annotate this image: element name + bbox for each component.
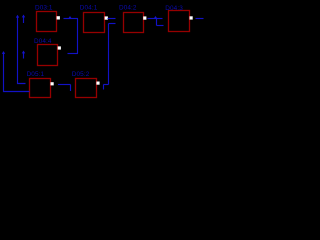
pin D04:1 right [105, 16, 108, 19]
wire from D04:1 pin [108, 18, 116, 20]
pin D05:1 right [51, 82, 54, 85]
svg-text:D05:1: D05:1 [27, 71, 45, 78]
wire down from D04:2 net [156, 19, 158, 26]
port wire short middle [23, 52, 25, 59]
component D03:1 [37, 12, 57, 32]
arrow port top short [22, 15, 25, 18]
wire down stub near D05:2 [103, 85, 105, 90]
wire from D04:2 pin [148, 18, 163, 20]
wire down from D04:1 net [108, 24, 110, 85]
pin D04:4 right [58, 46, 61, 49]
arrow port far left [2, 51, 5, 54]
svg-text:D04:3: D04:3 [165, 5, 183, 12]
svg-text:D04:4: D04:4 [34, 38, 52, 45]
wire stub below D04:1 pin [109, 23, 116, 25]
pin D03:1 right [57, 16, 60, 19]
wire from D03:1 pin [64, 18, 79, 20]
component D05:2 [76, 79, 97, 98]
port wire long left [18, 17, 26, 84]
pin D04:3 right [190, 16, 193, 19]
pin D04:2 right [143, 16, 146, 19]
svg-text:D03:1: D03:1 [35, 5, 53, 12]
wire down from D05:1 net [70, 85, 72, 92]
svg-text:D04:2: D04:2 [119, 5, 137, 12]
component D04:3 [169, 11, 190, 32]
arrow port middle short [22, 51, 25, 54]
arrow on D03:1 wire [68, 16, 72, 19]
wire down from D03:1 net [77, 19, 79, 54]
component D04:1 [84, 13, 105, 33]
arrow on D04:2 wire [154, 16, 158, 19]
component D05:1 [30, 79, 51, 98]
port wire far left [4, 53, 30, 92]
svg-text:D04:1: D04:1 [80, 5, 98, 12]
pin D05:2 right [96, 82, 99, 85]
wire left at bottom of D03:1 net [68, 53, 79, 55]
svg-text:D05:2: D05:2 [72, 71, 90, 78]
component D04:2 [124, 13, 144, 33]
wire right at bottom of D04:2 net [157, 25, 164, 27]
arrow port left long [16, 15, 19, 18]
wire left toward D05:2 pin [104, 84, 109, 86]
component D04:4 [38, 45, 58, 66]
port wire short top [23, 17, 25, 24]
wire from D05:1 pin [58, 84, 71, 86]
wire from D04:3 pin [196, 18, 204, 20]
